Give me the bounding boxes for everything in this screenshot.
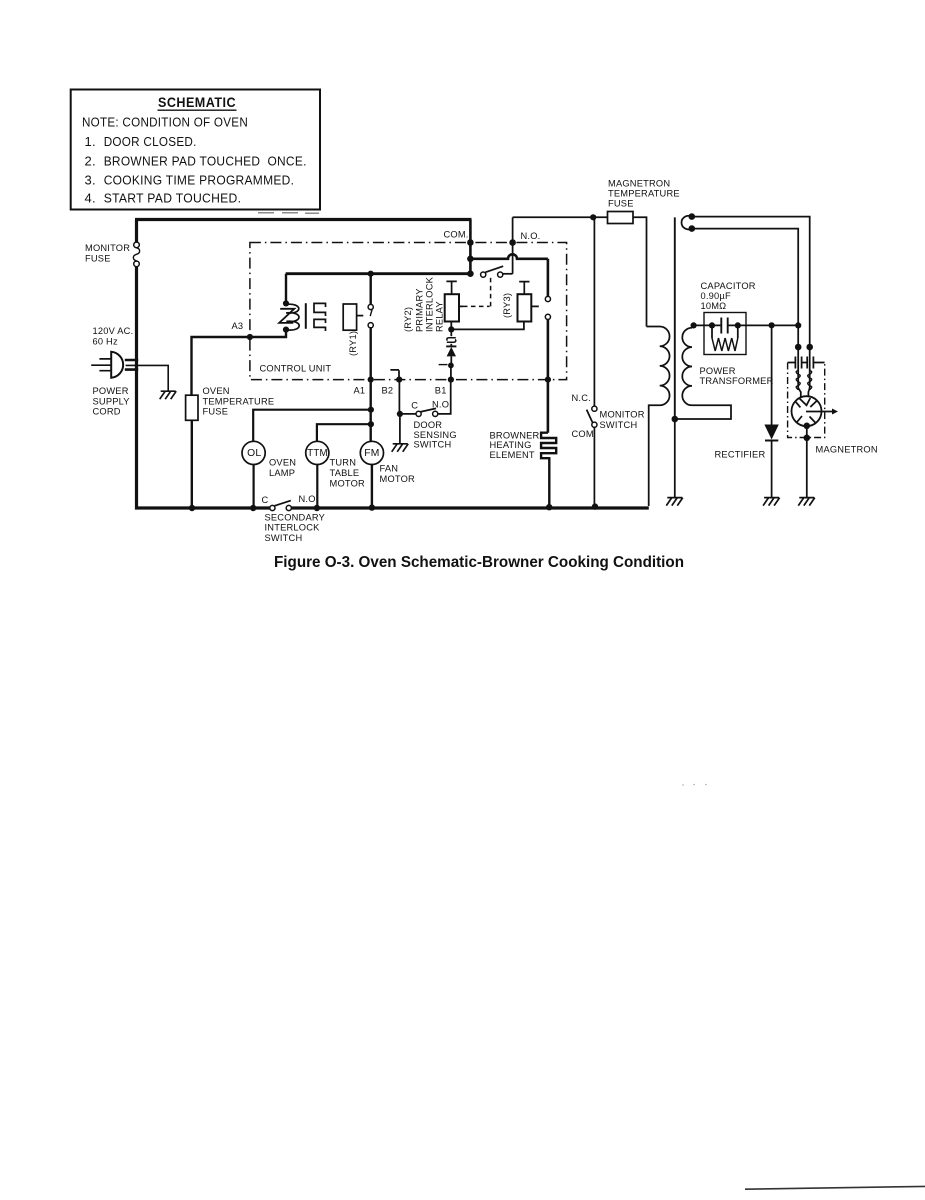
svg-text:INTERLOCK: INTERLOCK [265,523,321,533]
svg-text:Figure O-3. Oven Schematic-Bro: Figure O-3. Oven Schematic-Browner Cooki… [274,554,684,571]
svg-text:NOTE: CONDITION OF OVEN: NOTE: CONDITION OF OVEN [82,115,248,130]
svg-text:OL: OL [247,448,261,459]
svg-text:MAGNETRON: MAGNETRON [816,445,878,455]
svg-text:N.O: N.O [299,494,316,504]
svg-text:FUSE: FUSE [608,198,634,208]
svg-text:TURN: TURN [330,458,357,468]
svg-text:SWITCH: SWITCH [414,440,452,450]
svg-text:PRIMARY: PRIMARY [415,288,425,332]
svg-text:(RY1): (RY1) [348,331,358,356]
svg-text:MOTOR: MOTOR [380,474,416,484]
svg-text:BROWNER: BROWNER [490,430,540,440]
svg-text:MAGNETRON: MAGNETRON [608,178,670,188]
svg-text:POWER: POWER [700,366,736,376]
svg-text:DOOR CLOSED.: DOOR CLOSED. [104,134,197,149]
svg-text:10MΩ: 10MΩ [701,301,727,311]
svg-text:TABLE: TABLE [330,468,360,478]
svg-text:OVEN: OVEN [203,386,230,396]
svg-text:SWITCH: SWITCH [600,420,638,430]
svg-text:SWITCH: SWITCH [265,533,303,543]
svg-text:COM: COM [572,429,594,439]
svg-text:MONITOR: MONITOR [85,243,130,253]
svg-text:POWER: POWER [93,386,129,396]
svg-text:OVEN: OVEN [269,458,296,468]
svg-text:BROWNER PAD TOUCHED ONCE.: BROWNER PAD TOUCHED ONCE. [104,154,307,169]
svg-text:COOKING TIME PROGRAMMED.: COOKING TIME PROGRAMMED. [104,173,295,188]
svg-text:MOTOR: MOTOR [330,479,366,489]
svg-text:START PAD TOUCHED.: START PAD TOUCHED. [104,191,242,206]
svg-text:DOOR: DOOR [414,420,443,430]
svg-text:A3: A3 [232,321,244,331]
svg-text:60 Hz: 60 Hz [93,337,118,347]
svg-text:MONITOR: MONITOR [600,409,645,419]
svg-text:TEMPERATURE: TEMPERATURE [608,188,680,198]
svg-text:FAN: FAN [380,464,399,474]
svg-text:N.C.: N.C. [572,393,591,403]
svg-text:FM: FM [364,448,379,459]
svg-text:CONTROL UNIT: CONTROL UNIT [260,364,332,374]
svg-text:CORD: CORD [93,407,121,417]
svg-text:TTM: TTM [307,448,328,459]
svg-text:1.: 1. [85,134,96,149]
svg-text:INTERLOCK: INTERLOCK [425,276,435,332]
svg-text:SCHEMATIC: SCHEMATIC [158,95,236,110]
svg-text:TRANSFORMER: TRANSFORMER [700,376,774,386]
svg-text:C: C [411,401,418,411]
svg-text:3.: 3. [85,173,96,188]
svg-text:CAPACITOR: CAPACITOR [701,281,756,291]
svg-text:N.O.: N.O. [432,399,452,409]
svg-text:RECTIFIER: RECTIFIER [715,450,766,460]
svg-text:0.90µF: 0.90µF [701,291,731,301]
svg-text:LAMP: LAMP [269,468,295,478]
svg-text:120V AC.: 120V AC. [93,326,134,336]
svg-text:B1: B1 [435,386,447,396]
svg-text:COM.: COM. [444,230,469,240]
svg-text:4.: 4. [85,191,96,206]
svg-text:SENSING: SENSING [414,430,457,440]
svg-text:(RY3): (RY3) [502,293,512,318]
svg-text:SECONDARY: SECONDARY [265,512,326,522]
svg-text:RELAY: RELAY [434,301,444,332]
svg-text:SUPPLY: SUPPLY [93,396,130,406]
svg-text:ELEMENT: ELEMENT [490,450,535,460]
svg-text:2.: 2. [85,154,96,169]
svg-text:FUSE: FUSE [85,253,111,263]
svg-text:(RY2): (RY2) [403,307,413,332]
svg-text:A1: A1 [354,386,366,396]
svg-text:C: C [262,495,269,505]
svg-text:N.O.: N.O. [521,231,541,241]
svg-text:FUSE: FUSE [203,407,229,417]
svg-text:HEATING: HEATING [490,440,532,450]
svg-text:TEMPERATURE: TEMPERATURE [203,396,275,406]
svg-text:B2: B2 [382,386,394,396]
